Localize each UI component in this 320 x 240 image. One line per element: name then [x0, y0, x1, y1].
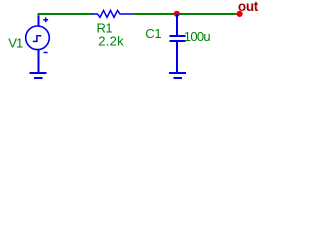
voltage source V1	[26, 16, 50, 72]
svg-text:out: out	[238, 0, 259, 14]
ground under V1	[30, 73, 47, 78]
wire from resistor to out node	[134, 13, 240, 15]
svg-text:2.2k: 2.2k	[98, 34, 124, 49]
svg-text:C1: C1	[145, 26, 161, 41]
ground under C1	[169, 73, 186, 78]
svg-text:100u: 100u	[184, 29, 211, 44]
node junction dot at C1	[174, 11, 180, 17]
resistor R1	[92, 10, 134, 17]
capacitor C1	[170, 14, 186, 72]
wire from V1 top pin to resistor R1	[39, 14, 94, 17]
node out dot	[237, 11, 243, 17]
svg-text:V1: V1	[8, 36, 23, 51]
